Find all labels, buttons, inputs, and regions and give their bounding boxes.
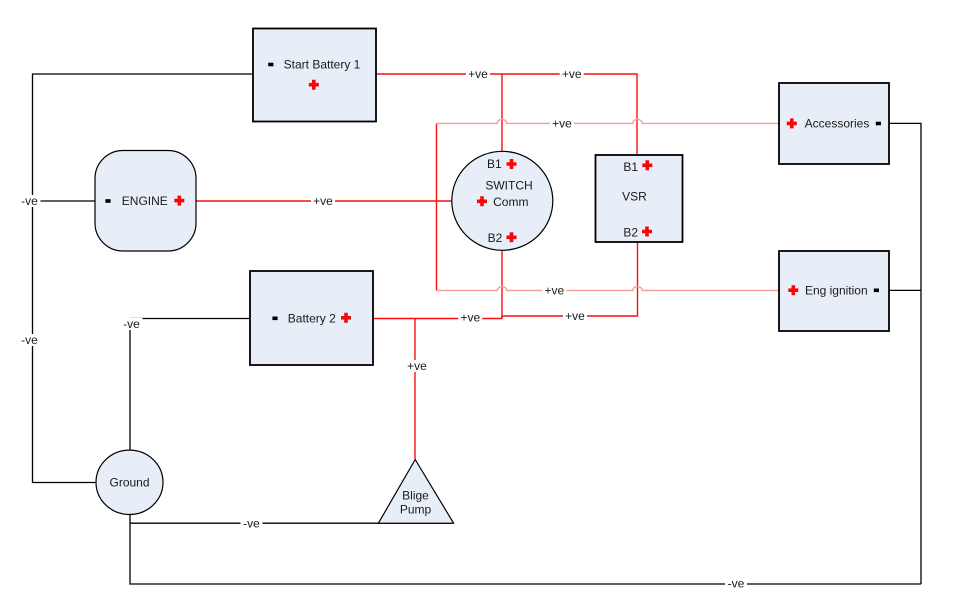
svg-text:-ve: -ve [123, 317, 140, 331]
svg-text:B1: B1 [623, 160, 638, 174]
svg-text:Eng ignition: Eng ignition [805, 283, 868, 297]
wire: Start Battery 1 negative to Ground (black, left side) [33, 74, 254, 483]
wire: Ground bottom down and along bottom to right vertical [130, 514, 921, 584]
svg-text:VSR: VSR [622, 190, 647, 204]
wire: Start Battery 1 positive to VSR B1 (red) [376, 74, 637, 155]
svg-text:Ground: Ground [109, 476, 149, 490]
svg-text:Pump: Pump [400, 503, 432, 517]
svg-text:+ve: +ve [552, 117, 572, 131]
wire: junction to VSR B2 (red) [502, 243, 638, 319]
svg-text:+ve: +ve [313, 194, 333, 208]
wire: Comm to Accessories (pink, hops over B1 wires) [437, 119, 780, 123]
svg-text:Comm: Comm [493, 195, 528, 209]
net label +ve (junction to VSR B2) [563, 309, 587, 323]
svg-text:Blige: Blige [402, 489, 429, 503]
load: Accessories [779, 83, 889, 164]
svg-text:-ve: -ve [243, 516, 260, 530]
ground node [96, 450, 163, 514]
svg-text:+ve: +ve [562, 67, 582, 81]
net label +ve (Battery 2 to switch B2) [458, 311, 482, 325]
load: Eng ignition [779, 251, 889, 331]
svg-text:+ve: +ve [545, 284, 565, 298]
net label +ve (Start Battery to switch) [466, 67, 490, 81]
net label -ve (Ground to Blige Pump) [241, 516, 263, 530]
svg-text:+ve: +ve [407, 359, 427, 373]
svg-text:+ve: +ve [565, 309, 585, 323]
load: Blige Pump (triangle) [378, 460, 453, 524]
battery: Battery 2 [250, 271, 373, 365]
svg-text:Accessories: Accessories [805, 117, 870, 131]
battery: Start Battery 1 [253, 29, 376, 122]
svg-text:Battery 2: Battery 2 [288, 312, 336, 326]
wire: Ground branch to Blige Pump base [130, 522, 453, 524]
wire: ENGINE positive to SWITCH Comm (red) [196, 200, 453, 202]
wire: SWITCH B2 down to Battery 2 line (red) [501, 251, 503, 319]
svg-text:SWITCH: SWITCH [485, 179, 532, 193]
net label -ve (left vertical at ENGINE) [19, 194, 41, 208]
wire: tap down to Blige Pump (red) [414, 319, 416, 460]
svg-text:+ve: +ve [468, 67, 488, 81]
net label +ve (ENGINE to Comm) [311, 194, 335, 208]
battery switch SWITCH [452, 151, 553, 250]
wire: Comm to Eng ignition (pink, hops over B2 wires) [437, 286, 780, 290]
net label -ve (Battery 2 negative) [121, 317, 143, 331]
net label +ve (Comm to Accessories) [550, 117, 574, 131]
net label +ve (Comm to Eng ignition) [542, 284, 566, 298]
wire: branch down to SWITCH B1 (red) [501, 74, 503, 152]
wire: Battery 2 negative down to Ground top [130, 319, 250, 451]
net label +ve (Start Battery to VSR) [560, 67, 584, 81]
wire: Battery 2 positive to junction (red) [373, 318, 502, 320]
wire: Accessories negative down right side [889, 123, 921, 584]
svg-text:B2: B2 [623, 225, 638, 239]
net label +ve (Blige Pump feed) [405, 359, 429, 373]
svg-text:-ve: -ve [21, 194, 38, 208]
svg-text:B2: B2 [488, 231, 503, 245]
relay VSR [596, 155, 683, 242]
svg-text:Start Battery 1: Start Battery 1 [284, 58, 361, 72]
wire: Comm distribution vertical (red) [436, 123, 438, 290]
net label -ve (bottom return) [725, 577, 747, 591]
svg-text:B1: B1 [487, 157, 502, 171]
wire: Eng ignition negative tee to right vertical [889, 289, 921, 291]
svg-text:ENGINE: ENGINE [122, 194, 168, 208]
svg-text:-ve: -ve [21, 333, 38, 347]
engine block [95, 151, 196, 252]
net label -ve (left vertical mid) [19, 333, 41, 347]
svg-text:+ve: +ve [460, 311, 480, 325]
svg-text:-ve: -ve [728, 577, 745, 591]
wire: ENGINE negative tee to left vertical [33, 200, 96, 202]
